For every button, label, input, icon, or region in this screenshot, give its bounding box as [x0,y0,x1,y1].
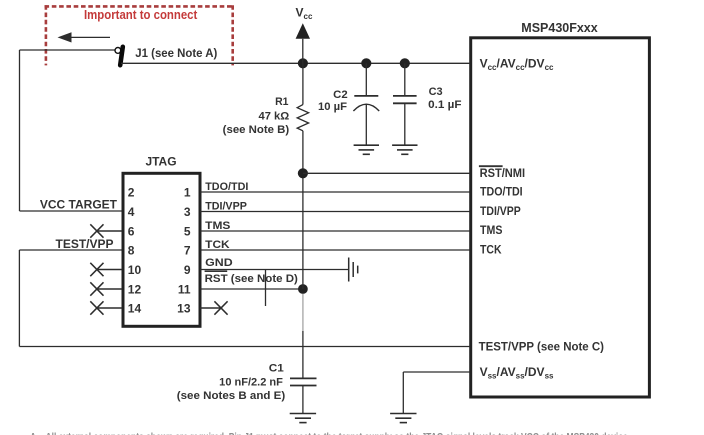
svg-text:C3: C3 [429,86,443,98]
svg-text:J1 (see Note A): J1 (see Note A) [135,46,217,60]
svg-text:3: 3 [184,205,191,219]
wire: vertical R1 to RST node [302,173,304,289]
wire: TEST/VPP to JTAG pin 8 [19,249,122,251]
resistor R1 [297,63,308,173]
svg-text:C1: C1 [269,363,284,375]
no-connect X and stub on pin 10 [90,263,122,276]
wire: GND (JTAG pin 9 to ground) [200,269,349,271]
svg-text:6: 6 [128,224,135,238]
svg-text:TEST/VPP: TEST/VPP [55,237,113,251]
no-connect X and stub on pin 12 [90,282,122,295]
svg-text:TMS: TMS [205,220,230,232]
no-connect X and stub on pin 6 [90,224,122,237]
svg-text:TDO/TDI: TDO/TDI [480,185,523,199]
svg-text:C2: C2 [333,89,348,101]
jumper J1 (open switch) [115,47,123,65]
wire: bottom rail TEST/VPP to MSP430 [19,346,469,348]
wire: left rail to J1 [20,49,117,51]
svg-text:10 nF/2.2 nF: 10 nF/2.2 nF [219,376,283,388]
svg-text:TMS: TMS [480,223,502,237]
svg-text:MSP430Fxxx: MSP430Fxxx [521,21,597,35]
svg-text:11: 11 [178,282,191,296]
svg-text:0.1 µF: 0.1 µF [428,99,462,111]
svg-text:R1: R1 [275,96,288,108]
label C2 10 uF [318,89,348,113]
svg-text:TEST/VPP (see Note C): TEST/VPP (see Note C) [479,339,604,353]
wire: TDI/VPP (JTAG pin 3 to MSP430) [200,211,469,213]
svg-text:7: 7 [184,243,191,257]
svg-text:(see Notes B and E): (see Notes B and E) [177,390,286,402]
important-to-connect dashed callout box [45,5,235,65]
svg-text:RST/NMI: RST/NMI [480,166,525,180]
wire: Vss to ground [403,371,469,373]
no-connect X and stub on pin 13 [200,301,228,314]
capacitor C1 [290,378,317,413]
svg-text:5: 5 [184,224,191,238]
svg-text:9: 9 [184,263,191,277]
wire: RST/NMI to MSP430 [303,172,470,174]
svg-text:14: 14 [128,301,142,315]
ground symbol (rotated) on GND wire [349,258,358,282]
svg-text:Vcc: Vcc [296,6,313,22]
no-connect X and stub on pin 14 [90,301,122,314]
svg-text:(see Note B): (see Note B) [223,124,290,136]
capacitor C2 (polarized 10uF) [353,63,379,145]
wire: VCC TARGET to JTAG pin 4 [20,210,123,212]
node: junction Vcc/R1 [298,58,308,68]
wire: RST (JTAG pin 11 to RST node) [200,288,303,290]
wire: TEST/VPP left vertical [18,250,20,347]
wire: stub below GND wire [265,270,267,307]
svg-text:JTAG: JTAG [145,155,176,169]
label C1 10 nF/2.2 nF (see Notes B and E) [177,363,286,403]
wire: left vertical VCC TARGET net [19,50,21,211]
svg-text:TDI/VPP: TDI/VPP [480,204,521,218]
label R1 47 kOhm (see Note B) [223,96,290,136]
svg-text:2: 2 [128,185,135,199]
node: junction Vcc/C2 [361,58,371,68]
svg-text:VCC TARGET: VCC TARGET [40,198,118,212]
svg-text:10: 10 [128,263,142,277]
svg-text:TDO/TDI: TDO/TDI [205,181,248,193]
node: junction Vcc/C3 [400,58,410,68]
wire: TCK (JTAG pin 7 to MSP430) [200,249,469,251]
svg-text:Vss/AVss/DVss: Vss/AVss/DVss [480,365,554,381]
svg-text:10 µF: 10 µF [318,101,347,113]
wire: TMS (JTAG pin 5 to MSP430) [200,230,469,232]
label C3 0.1 uF [428,86,462,111]
svg-text:A. All external components s: A. All external components shown are req… [30,431,630,435]
svg-text:Vcc/AVcc/DVcc: Vcc/AVcc/DVcc [480,57,554,73]
svg-text:1: 1 [184,185,191,199]
svg-text:8: 8 [128,243,135,257]
svg-text:TCK: TCK [480,243,502,257]
JTAG connector box [123,173,200,326]
wire: gray drop from RST node [302,294,304,331]
capacitor C3 (0.1uF) [393,63,417,145]
node: RST junction dot [298,284,308,294]
svg-text:13: 13 [177,301,191,315]
wire: TDO/TDI (JTAG pin 1 to MSP430) [200,191,469,193]
svg-text:GND: GND [205,257,233,269]
svg-text:4: 4 [128,205,135,219]
svg-text:TCK: TCK [205,239,229,251]
svg-text:Important to connect: Important to connect [84,8,198,22]
power symbol Vcc [296,6,313,64]
ground under C2 [354,145,379,154]
svg-text:12: 12 [128,282,142,296]
node: RST/NMI junction dot [298,168,308,178]
arrow pointing left [58,32,111,42]
svg-text:47 kΩ: 47 kΩ [259,111,290,123]
ground under C3 [392,145,417,154]
svg-text:RST (see Note D): RST (see Note D) [205,273,299,285]
svg-text:TDI/VPP: TDI/VPP [205,201,247,213]
MSP430Fxxx IC box [471,38,650,397]
wire: Vcc rail from J1 to MSP430 Vcc pin [121,62,469,64]
ground under C1 [290,414,316,423]
ground under Vss [390,414,416,423]
wire: drop to C1 [302,331,304,378]
